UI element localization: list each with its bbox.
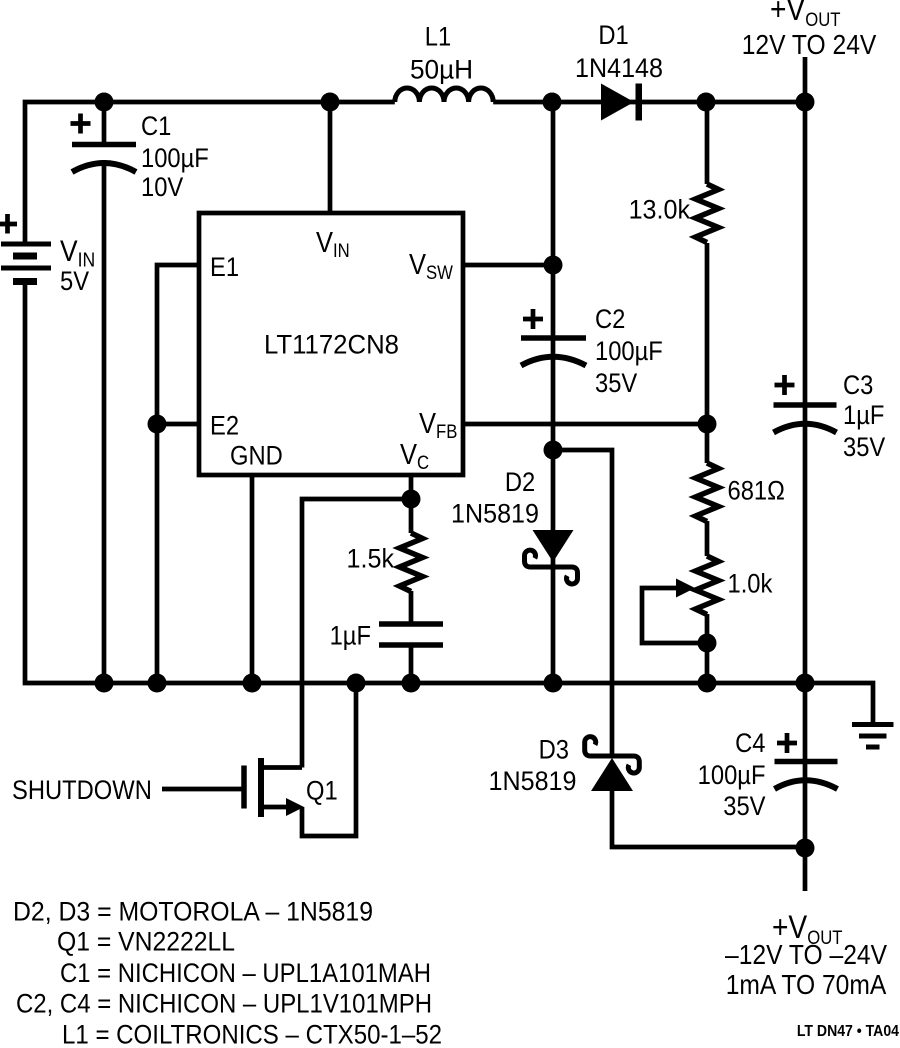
svg-text:E2: E2 xyxy=(210,411,239,441)
svg-text:D3: D3 xyxy=(539,735,569,765)
svg-text:D2, D3 = MOTOROLA – 1N5819: D2, D3 = MOTOROLA – 1N5819 xyxy=(13,897,373,927)
svg-text:1N5819: 1N5819 xyxy=(489,765,577,796)
svg-text:C4: C4 xyxy=(735,729,765,759)
svg-text:LT1172CN8: LT1172CN8 xyxy=(264,330,399,360)
svg-text:C2: C2 xyxy=(595,305,625,335)
svg-text:5V: 5V xyxy=(60,267,89,297)
svg-text:GND: GND xyxy=(230,441,283,471)
svg-text:1N4148: 1N4148 xyxy=(575,52,663,83)
svg-text:681Ω: 681Ω xyxy=(728,476,785,506)
svg-text:35V: 35V xyxy=(595,369,637,399)
svg-text:50µH: 50µH xyxy=(410,54,473,84)
svg-text:13.0k: 13.0k xyxy=(629,194,691,225)
svg-text:C3: C3 xyxy=(843,371,873,401)
svg-text:12V TO 24V: 12V TO 24V xyxy=(742,29,877,61)
svg-text:1.5k: 1.5k xyxy=(347,543,395,574)
svg-text:100µF: 100µF xyxy=(698,761,766,791)
svg-text:D2: D2 xyxy=(505,468,535,498)
svg-text:–12V TO –24V: –12V TO –24V xyxy=(725,939,887,971)
svg-text:LT DN47 • TA04: LT DN47 • TA04 xyxy=(797,1022,900,1040)
svg-text:Q1: Q1 xyxy=(306,776,338,806)
svg-text:100µF: 100µF xyxy=(141,144,209,174)
svg-text:Q1 = VN2222LL: Q1 = VN2222LL xyxy=(57,927,235,957)
svg-text:L1: L1 xyxy=(425,22,451,52)
svg-text:1mA TO 70mA: 1mA TO 70mA xyxy=(726,969,887,1001)
svg-text:D1: D1 xyxy=(598,21,628,51)
svg-text:10V: 10V xyxy=(141,173,183,203)
svg-text:SHUTDOWN: SHUTDOWN xyxy=(12,776,152,806)
svg-text:1N5819: 1N5819 xyxy=(451,498,539,529)
svg-text:1µF: 1µF xyxy=(843,401,884,431)
svg-text:C1: C1 xyxy=(141,112,171,142)
svg-text:E1: E1 xyxy=(210,253,239,283)
svg-text:1µF: 1µF xyxy=(330,621,371,651)
svg-text:C2, C4 = NICHICON – UPL1V101MP: C2, C4 = NICHICON – UPL1V101MPH xyxy=(16,989,432,1019)
svg-text:35V: 35V xyxy=(723,792,765,822)
svg-text:35V: 35V xyxy=(843,433,885,463)
svg-text:1.0k: 1.0k xyxy=(728,569,773,599)
svg-text:L1 = COILTRONICS – CTX50-1–52: L1 = COILTRONICS – CTX50-1–52 xyxy=(62,1020,442,1048)
svg-text:C1 = NICHICON – UPL1A101MAH: C1 = NICHICON – UPL1A101MAH xyxy=(60,958,431,988)
svg-text:100µF: 100µF xyxy=(595,337,663,367)
